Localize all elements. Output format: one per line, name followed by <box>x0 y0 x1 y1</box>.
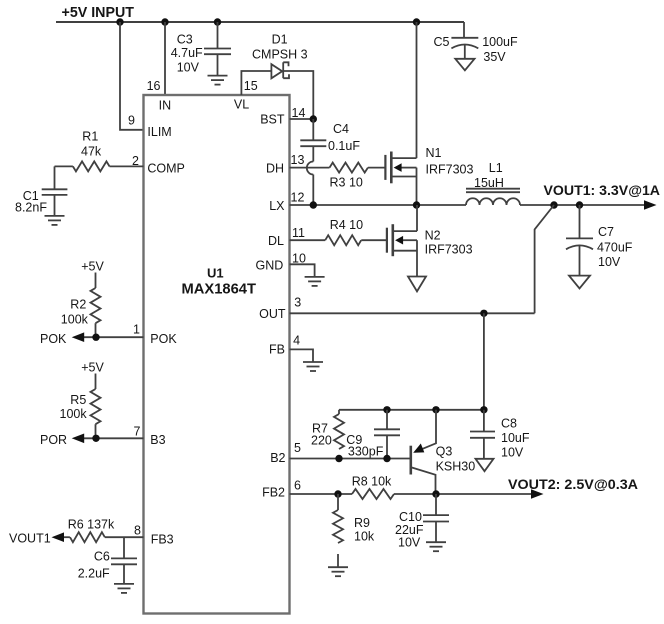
pin 14 label BST <box>260 106 305 127</box>
svg-text:0.1uF: 0.1uF <box>328 139 360 153</box>
svg-text:100uF: 100uF <box>482 35 518 49</box>
node POK output arrow <box>40 332 84 346</box>
svg-text:470uF: 470uF <box>597 241 633 255</box>
wire VOUT1 rail <box>520 204 645 206</box>
svg-text:C7: C7 <box>598 225 614 239</box>
svg-text:R4 10: R4 10 <box>330 218 363 232</box>
junction top-C8 <box>480 406 487 413</box>
junction rail-IN <box>161 18 168 25</box>
resistor R6 137k <box>64 518 116 543</box>
svg-text:B3: B3 <box>150 433 165 447</box>
svg-text:ILIM: ILIM <box>147 125 171 139</box>
svg-text:N1: N1 <box>426 146 442 160</box>
wire C4 hop over DH and down to LX <box>307 162 313 175</box>
svg-text:220: 220 <box>311 434 332 448</box>
node +5V (POR pullup) <box>81 361 104 375</box>
svg-text:R5: R5 <box>70 393 86 407</box>
resistor R7 220 <box>311 410 344 459</box>
svg-text:Q3: Q3 <box>436 445 453 459</box>
svg-text:10uF: 10uF <box>501 431 530 445</box>
svg-text:15: 15 <box>244 79 258 93</box>
svg-text:47k: 47k <box>81 145 102 159</box>
capacitor C8 10uF <box>470 410 530 460</box>
svg-text:IRF7303: IRF7303 <box>425 243 473 257</box>
junction POR-R5 <box>92 435 99 442</box>
wire B2 pin5 (Q3 base) <box>290 458 411 460</box>
svg-text:10V: 10V <box>598 255 621 269</box>
diode D1 CMPSH 3 (schottky) <box>252 33 308 79</box>
junction top-C9 <box>383 406 390 413</box>
svg-text:11: 11 <box>292 226 305 240</box>
pin 12 label LX <box>269 191 304 214</box>
pin 8 label FB3 <box>134 524 174 547</box>
svg-text:C6: C6 <box>94 550 110 564</box>
svg-text:POK: POK <box>40 332 67 346</box>
svg-text:8.2nF: 8.2nF <box>15 201 47 215</box>
pin 16 label IN <box>147 79 172 113</box>
node VOUT2 output arrow <box>508 476 638 499</box>
svg-text:R6 137k: R6 137k <box>68 518 115 532</box>
transistor N1 IRF7303 (n-channel MOSFET) <box>385 22 473 205</box>
svg-text:4: 4 <box>293 334 300 348</box>
svg-text:330pF: 330pF <box>348 445 384 459</box>
svg-text:FB2: FB2 <box>262 486 285 500</box>
resistor R5 100k <box>60 374 101 439</box>
capacitor C10 22uF <box>395 494 449 550</box>
svg-text:B2: B2 <box>270 451 285 465</box>
node +5V INPUT label <box>62 4 135 21</box>
svg-text:9: 9 <box>128 114 135 128</box>
resistor R2 100k <box>61 273 101 338</box>
svg-text:+5V: +5V <box>81 361 104 375</box>
wire FB2 pin6 <box>290 493 353 495</box>
svg-text:10V: 10V <box>177 61 200 75</box>
pin 10 label GND <box>256 252 306 273</box>
junction LX-C4 <box>310 201 317 208</box>
inductor L1 15uH <box>466 161 520 205</box>
transistor Q3 KSH30 <box>411 410 475 494</box>
junction rail-ILIM <box>116 18 123 25</box>
junction top-Q3 <box>432 406 439 413</box>
pin 7 label B3 <box>134 425 166 448</box>
svg-text:100k: 100k <box>60 407 88 421</box>
svg-text:+5V INPUT: +5V INPUT <box>62 4 135 21</box>
junction VOUT1-C7 <box>576 201 583 208</box>
resistor R9 10k <box>333 494 375 567</box>
junction LX-N1N2 <box>413 201 420 208</box>
svg-text:U1: U1 <box>207 266 224 281</box>
ground FB pin4 <box>290 349 324 371</box>
svg-text:12: 12 <box>291 191 305 205</box>
pin 1 label POK <box>133 323 177 347</box>
wire C5 branch drop <box>463 22 465 38</box>
wire IN pin16 feed <box>164 22 166 95</box>
svg-text:POR: POR <box>40 433 67 447</box>
wire VOUT1 to OUT (diagonal drop) <box>535 205 554 313</box>
wire LX pin12 rail <box>290 204 467 206</box>
pin 11 label DL <box>268 226 305 248</box>
ground C5 open triangle <box>455 59 474 71</box>
wire POK pin1 <box>84 336 144 338</box>
svg-text:8: 8 <box>134 524 141 538</box>
svg-text:3: 3 <box>294 296 301 310</box>
ground C10 <box>426 542 446 551</box>
ground C1 <box>45 216 65 225</box>
svg-text:FB: FB <box>269 343 285 357</box>
node VOUT1 output arrow <box>544 182 661 210</box>
svg-text:7: 7 <box>134 425 141 439</box>
pin 5 label B2 <box>270 441 301 465</box>
wire FB3 pin8 <box>105 536 144 538</box>
node VOUT1 feedback arrow <box>9 532 64 546</box>
junction BST-C4 <box>310 115 317 122</box>
capacitor C7 470uF <box>566 205 633 276</box>
svg-text:MAX1864T: MAX1864T <box>182 282 257 298</box>
ground GND pin10 <box>290 264 325 286</box>
svg-text:C3: C3 <box>177 33 193 47</box>
svg-text:VL: VL <box>234 98 249 112</box>
junction POK-R2 <box>92 334 99 341</box>
resistor R1 47k <box>55 130 144 172</box>
svg-text:10k: 10k <box>354 530 375 544</box>
svg-text:R8 10k: R8 10k <box>352 475 392 489</box>
svg-text:C8: C8 <box>501 417 517 431</box>
svg-text:L1: L1 <box>489 161 503 175</box>
svg-text:100k: 100k <box>61 313 89 327</box>
svg-text:IN: IN <box>159 99 172 113</box>
svg-text:16: 16 <box>147 79 161 93</box>
resistor R3 10 <box>330 163 386 190</box>
transistor N2 IRF7303 (n-channel MOSFET) <box>387 205 473 277</box>
ground C3 <box>208 76 228 85</box>
capacitor C9 330pF <box>346 410 400 459</box>
wire DL pin11 <box>290 239 326 241</box>
svg-text:15uH: 15uH <box>474 176 504 190</box>
svg-text:GND: GND <box>256 259 284 273</box>
svg-text:VOUT1: VOUT1 <box>9 532 51 546</box>
pin 3 label OUT <box>259 296 301 322</box>
svg-text:C5: C5 <box>434 35 450 49</box>
svg-text:4.7uF: 4.7uF <box>171 46 203 60</box>
svg-text:IRF7303: IRF7303 <box>426 163 474 177</box>
svg-text:CMPSH 3: CMPSH 3 <box>252 48 308 62</box>
ground C6 <box>114 584 134 593</box>
junction rail-C3 <box>214 18 221 25</box>
svg-text:C4: C4 <box>333 122 349 136</box>
svg-text:5: 5 <box>294 441 301 455</box>
wire OUT down to secondary supply <box>483 313 485 410</box>
wire OUT pin3 <box>290 312 535 314</box>
wire ILIM feed <box>120 22 144 130</box>
junction B2-C9 <box>383 455 390 462</box>
resistor R8 10k <box>352 475 532 500</box>
junction B2-R7 <box>335 455 342 462</box>
node POR output arrow <box>40 433 84 447</box>
svg-text:D1: D1 <box>272 33 288 47</box>
pin 4 label FB <box>269 334 300 357</box>
capacitor C4 0.1uF <box>300 119 360 162</box>
wire D1 cathode to BST <box>283 71 313 119</box>
pin 9 label ILIM <box>128 114 172 140</box>
junction rail-N1 drain <box>413 18 420 25</box>
svg-text:R1: R1 <box>82 130 98 144</box>
svg-text:13: 13 <box>291 153 305 167</box>
svg-text:N2: N2 <box>425 229 441 243</box>
ground C7 open triangle <box>569 276 590 289</box>
svg-text:VOUT2: 2.5V@0.3A: VOUT2: 2.5V@0.3A <box>508 476 638 492</box>
svg-text:OUT: OUT <box>259 307 286 321</box>
wire VL pin15 to D1 <box>241 71 271 95</box>
wire BST pin14 <box>290 118 314 120</box>
junction R8-C10-Q3 emitter <box>432 490 439 497</box>
capacitor C6 2.2uF <box>78 537 137 584</box>
svg-text:POK: POK <box>150 332 177 346</box>
ground N2 open triangle <box>408 277 426 292</box>
svg-text:R3 10: R3 10 <box>330 176 363 190</box>
svg-text:LX: LX <box>269 199 285 213</box>
capacitor C5 <box>434 35 519 64</box>
junction OUT-C8 branch <box>480 310 487 317</box>
svg-text:6: 6 <box>294 479 301 493</box>
capacitor C1 8.2nF <box>15 166 67 215</box>
svg-text:R2: R2 <box>70 298 86 312</box>
svg-text:VOUT1: 3.3V@1A: VOUT1: 3.3V@1A <box>544 182 661 198</box>
svg-text:35V: 35V <box>483 50 506 64</box>
pin 6 label FB2 <box>262 479 301 500</box>
svg-text:14: 14 <box>292 106 306 120</box>
svg-text:C10: C10 <box>399 510 422 524</box>
pin 2 label COMP <box>132 154 185 176</box>
svg-text:10V: 10V <box>501 446 524 460</box>
capacitor C3 <box>171 22 231 75</box>
svg-text:2.2uF: 2.2uF <box>78 567 110 581</box>
pin 15 label VL <box>234 79 258 112</box>
wire POR pin7 <box>84 437 144 439</box>
pin 13 label DH <box>266 153 305 176</box>
wire DH pin13 <box>290 167 330 169</box>
svg-text:DH: DH <box>266 162 284 176</box>
svg-text:DL: DL <box>268 234 284 248</box>
op-amp U1 IC body MAX1864T <box>144 95 290 614</box>
svg-text:FB3: FB3 <box>151 533 174 547</box>
wire secondary top rail <box>339 409 484 411</box>
svg-text:BST: BST <box>260 113 285 127</box>
svg-text:1: 1 <box>133 323 140 337</box>
junction FB2-R9 <box>334 490 341 497</box>
junction VOUT1-OUT branch <box>550 201 557 208</box>
node +5V (POK pullup) <box>81 260 104 274</box>
svg-text:+5V: +5V <box>81 260 104 274</box>
wire +5V input rail <box>56 21 464 23</box>
resistor R4 10 <box>325 218 387 245</box>
svg-text:KSH30: KSH30 <box>436 460 476 474</box>
svg-text:10V: 10V <box>398 536 421 550</box>
svg-text:COMP: COMP <box>147 162 185 176</box>
ground C8 open triangle <box>476 459 494 471</box>
svg-text:R9: R9 <box>354 516 370 530</box>
ground R9 <box>328 567 348 576</box>
